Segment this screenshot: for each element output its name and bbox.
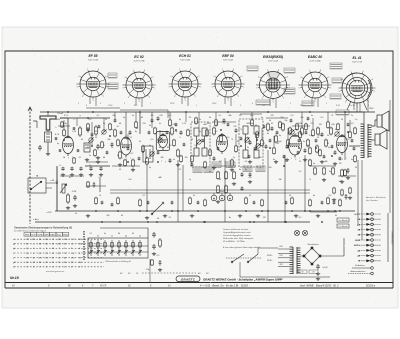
svg-text:5: 5 <box>326 103 327 105</box>
resistor R12 <box>132 159 135 168</box>
antenna coil L1 <box>45 130 52 146</box>
callout note b <box>108 83 118 89</box>
svg-text:0,1: 0,1 <box>169 217 172 219</box>
junction <box>261 210 263 212</box>
tube V3a <box>156 132 169 151</box>
resistor Rz8 <box>354 155 357 163</box>
svg-text:0,1: 0,1 <box>143 195 146 197</box>
capacitor Cy3 <box>253 201 256 205</box>
svg-text:8p: 8p <box>329 171 331 173</box>
wire vertical feed 5 <box>267 150 269 222</box>
junction <box>139 210 141 212</box>
svg-text:1n: 1n <box>111 236 113 238</box>
svg-text:bei 220V Netzanschluß ohne Sig: bei 220V Netzanschluß ohne Signal <box>14 230 46 233</box>
svg-text:7: 7 <box>299 158 300 160</box>
capacitor Cx6 <box>138 157 141 161</box>
title strip part numbers <box>12 285 171 288</box>
resistor Ry2 <box>189 197 192 205</box>
wire B+ top bus <box>40 111 375 113</box>
resistor Rx26 <box>349 131 352 139</box>
measurement dashed line <box>142 272 196 274</box>
svg-text:UKW: UKW <box>56 119 61 121</box>
svg-text:EL41: EL41 <box>57 234 61 236</box>
svg-text:2n: 2n <box>172 159 175 161</box>
svg-text:6,3V 0,2A: 6,3V 0,2A <box>268 59 278 62</box>
capacitor Cy1 <box>147 201 150 205</box>
svg-text:9n: 9n <box>335 129 337 131</box>
svg-text:3n: 3n <box>261 117 263 119</box>
svg-text:3M: 3M <box>307 145 310 147</box>
svg-text:EL 41: EL 41 <box>353 56 362 60</box>
trimmer capacitor CT9 <box>334 131 339 136</box>
ground <box>96 160 100 164</box>
svg-text:Original-Abgleichbesteck nach: Original-Abgleichbesteck nach <box>223 231 252 234</box>
wire TA lead 2 <box>46 187 52 189</box>
resistor Rx12 <box>215 119 218 127</box>
svg-text:4 mm neben grünem Strich abges: 4 mm neben grünem Strich abgeschaltet <box>223 246 260 249</box>
wire <box>338 175 356 177</box>
wire <box>127 134 129 148</box>
GRAETZ logo box <box>176 276 200 282</box>
capacitor Cu1 <box>59 149 62 152</box>
svg-text:1p: 1p <box>189 179 191 181</box>
wire left cluster edge <box>99 178 101 192</box>
wire <box>151 112 153 128</box>
wire B+ rise <box>343 238 345 256</box>
svg-text:0,1: 0,1 <box>117 126 120 128</box>
resistor Rx21 <box>296 123 299 131</box>
resistor Rz0 <box>187 129 190 137</box>
resistor R13 <box>146 157 149 166</box>
junction <box>157 161 159 163</box>
svg-text:Ca 16: Ca 16 <box>349 105 355 107</box>
tone control boxes <box>337 218 349 228</box>
resistor Ry9 <box>117 197 120 205</box>
resistor Rx2 <box>101 141 104 149</box>
svg-text:Antennenbuchse: Antennenbuchse <box>349 270 366 273</box>
capacitor Cy6 <box>333 201 336 205</box>
capacitor Cx21 <box>290 119 293 123</box>
resistor Ru1 <box>61 121 64 128</box>
resistor R11 <box>119 151 122 160</box>
ground <box>316 214 320 218</box>
svg-text:des Gerätes: des Gerätes <box>366 199 379 202</box>
wire vertical feed 2 <box>177 160 179 222</box>
junction <box>347 131 349 133</box>
capacitor C30 <box>61 167 64 171</box>
svg-text:2n: 2n <box>74 213 77 215</box>
capacitor Cz1 <box>297 151 300 155</box>
capacitor C31 <box>70 167 73 171</box>
svg-text:170V: 170V <box>108 105 113 107</box>
capacitor Cy0 <box>101 201 104 205</box>
ground <box>274 160 278 164</box>
capacitor Cz2 <box>307 117 310 121</box>
capacitor C3 <box>86 127 90 133</box>
svg-text:0,4: 0,4 <box>249 176 252 179</box>
svg-text:5n: 5n <box>111 129 113 131</box>
wire heater bus 1 <box>110 189 310 191</box>
tube V2a <box>121 136 132 158</box>
ground PSU <box>316 277 320 281</box>
callout note e <box>284 88 295 94</box>
junction <box>204 221 206 223</box>
resistor R17 <box>231 159 234 168</box>
svg-text:4 — 9.52 · Bearb. Gn · für die: 4 — 9.52 · Bearb. Gn · für die 2 Bl. · 5… <box>200 284 248 287</box>
wire <box>185 112 187 122</box>
junction <box>304 210 306 212</box>
terminal strip bracket <box>387 213 389 262</box>
tube V5 (socket view) <box>256 71 290 101</box>
ground <box>131 168 135 172</box>
resistor Rz3 <box>209 149 212 157</box>
junction <box>240 145 242 147</box>
resistor Rx6 <box>135 121 138 129</box>
ground <box>66 206 70 210</box>
ground <box>152 252 156 256</box>
resistor Ry6 <box>309 199 312 207</box>
svg-text:2M: 2M <box>338 181 342 183</box>
wire PSU drop <box>239 262 241 277</box>
wire <box>235 134 237 146</box>
ground <box>89 173 93 177</box>
junction <box>327 210 329 212</box>
resistor Ry7 <box>327 197 330 205</box>
dial lamps <box>294 230 307 235</box>
ground <box>96 156 100 160</box>
svg-text:ECH8: ECH8 <box>38 234 43 236</box>
junction <box>92 111 94 113</box>
wire to tone boxes <box>310 211 337 213</box>
svg-text:3: 3 <box>124 103 125 105</box>
resistor R14 <box>171 127 174 136</box>
svg-text:0,1: 0,1 <box>130 137 133 139</box>
tube bottom lead lines <box>90 97 96 106</box>
capacitor Ct1 <box>345 194 348 200</box>
resistor R19 <box>275 135 278 144</box>
wire <box>86 185 106 187</box>
output transformer <box>361 124 372 158</box>
svg-text:2,2M: 2,2M <box>71 191 77 193</box>
pin label box 193 <box>193 167 202 173</box>
wire transformer to rectifier <box>301 255 303 257</box>
ground <box>238 214 242 218</box>
resistor Rx4 <box>117 139 120 147</box>
capacitor Cu3 <box>77 149 80 152</box>
svg-text:0,1: 0,1 <box>219 115 222 117</box>
wire <box>86 107 120 109</box>
svg-text:Ausf. W/WE · Stand 4.52/53 · B: Ausf. W/WE · Stand 4.52/53 · Bl. 2 <box>299 284 339 287</box>
IF can 1 windings <box>194 128 207 156</box>
svg-text:5n: 5n <box>247 137 249 139</box>
trimmer capacitor CT8 <box>289 129 294 134</box>
capacitor Cx28 <box>347 123 350 127</box>
wire output anode <box>344 112 346 160</box>
svg-text:Ton Blende: Ton Blende <box>338 226 347 228</box>
wire PSU bottom <box>240 276 330 278</box>
junction <box>203 221 205 223</box>
ground <box>73 204 77 208</box>
svg-text:1M: 1M <box>263 217 266 219</box>
svg-text:1: 1 <box>161 161 162 163</box>
wire transformer tap 5 <box>278 266 290 268</box>
svg-text:1M: 1M <box>287 147 290 149</box>
svg-text:6,3V 0,7A: 6,3V 0,7A <box>352 60 362 63</box>
capacitor Cy4 <box>285 201 288 205</box>
resistor Rt2 <box>349 187 352 194</box>
wire <box>273 136 275 148</box>
tube V1 (socket view) <box>77 70 110 99</box>
capacitor C23 <box>334 151 337 155</box>
junction <box>147 221 149 223</box>
resistor Ry5 <box>291 197 294 205</box>
capacitor Cx29 <box>353 147 356 151</box>
svg-text:4p: 4p <box>135 130 137 133</box>
tube V5 pin numbers <box>256 69 290 103</box>
bridge rectifier <box>303 247 321 265</box>
svg-text:2n: 2n <box>312 163 315 165</box>
wire <box>167 110 169 118</box>
resistor R16 <box>213 127 216 136</box>
small boxed labels right of dashed line <box>298 270 318 273</box>
wire band switch feed <box>100 228 148 238</box>
pin label box 243 <box>243 166 252 172</box>
resistor R30 <box>67 193 70 204</box>
junction <box>67 111 69 113</box>
svg-text:1n: 1n <box>351 115 353 117</box>
resistor R22 <box>301 127 304 136</box>
svg-text:21mA: 21mA <box>56 112 63 115</box>
wire anode to OT top <box>345 111 364 113</box>
resistor Ry8 <box>339 199 342 207</box>
svg-text:0,1: 0,1 <box>79 157 82 159</box>
wire <box>63 120 65 130</box>
svg-text:Trimmer dürfen nur mit dem: Trimmer dürfen nur mit dem <box>223 228 249 231</box>
capacitor Cx20 <box>283 155 286 159</box>
svg-text:Ton Blende: Ton Blende <box>338 220 347 222</box>
resistor Rt0 <box>333 187 336 194</box>
antenna terminal T-plug <box>37 116 56 130</box>
resistor Rz4 <box>299 131 302 139</box>
capacitor C11 <box>129 131 132 135</box>
ground <box>320 160 324 164</box>
wire <box>212 121 236 123</box>
junction <box>224 210 226 212</box>
wire <box>159 130 161 140</box>
capacitor Cx5 <box>127 147 130 151</box>
svg-text:0,1: 0,1 <box>90 233 93 235</box>
ground <box>86 214 90 218</box>
wire <box>349 120 351 132</box>
pin label box 204 <box>204 167 213 173</box>
resistor Ry4 <box>261 199 264 207</box>
svg-text:0,1µF: 0,1µF <box>322 267 328 269</box>
wire B+ distribution bus <box>55 210 355 212</box>
wire vertical feed 8 <box>56 166 58 211</box>
svg-text:7n: 7n <box>59 165 61 167</box>
resistor R42 <box>233 171 236 180</box>
capacitor C18 <box>265 145 268 149</box>
resistor Rx29 <box>63 129 66 137</box>
junction <box>291 210 293 212</box>
capacitor Cx4 <box>120 131 123 135</box>
svg-text:Nr.10: Nr.10 <box>10 276 19 280</box>
phono input box <box>28 178 46 193</box>
svg-text:1n: 1n <box>199 119 201 121</box>
junction <box>253 221 255 223</box>
svg-text:5p: 5p <box>57 143 59 145</box>
speaker 1 <box>377 111 389 131</box>
resistor R21 <box>289 127 292 136</box>
wire vertical feed 4 <box>224 158 226 222</box>
junction <box>227 111 229 113</box>
band switch horizontal rows <box>88 245 148 247</box>
svg-text:9: 9 <box>126 159 127 161</box>
svg-text:5n: 5n <box>193 195 195 197</box>
capacitor Cf242 <box>241 173 244 177</box>
pin label box 256 <box>256 166 265 172</box>
svg-text:2p: 2p <box>131 115 134 117</box>
capacitor C20 <box>286 145 289 149</box>
svg-text:9: 9 <box>342 159 343 161</box>
wire <box>114 112 116 120</box>
resistor Rt1 <box>341 189 344 196</box>
svg-text:EC 92: EC 92 <box>134 55 144 59</box>
svg-text:8p: 8p <box>179 119 181 121</box>
capacitor C15 <box>213 157 216 161</box>
tube V1 pin numbers <box>77 69 111 102</box>
electrolytic C50 <box>211 193 217 201</box>
terminal T10 <box>359 260 381 263</box>
svg-text:6p: 6p <box>279 135 281 137</box>
wire <box>120 109 168 111</box>
svg-text:1: 1 <box>196 105 197 107</box>
resistor Rz7 <box>354 127 357 135</box>
resistor R41 <box>225 171 228 180</box>
junction <box>63 139 65 141</box>
tube V6a <box>289 134 302 158</box>
terminal T3 arrowhead <box>366 223 370 226</box>
svg-text:EBF8: EBF8 <box>44 234 48 236</box>
band switch wafer 7 <box>131 240 135 256</box>
callout note f <box>330 63 342 69</box>
capacitor Cf242 <box>241 187 244 191</box>
resistor Rx23 <box>319 149 322 157</box>
service note paragraph <box>222 228 260 249</box>
band switch wafer 5 <box>117 240 121 256</box>
svg-text:9: 9 <box>240 105 241 107</box>
svg-text:9p: 9p <box>103 123 105 125</box>
capacitor C1 <box>38 145 42 151</box>
svg-text:7: 7 <box>346 158 347 160</box>
svg-text:a: a <box>73 119 74 121</box>
capacitor Cx27 <box>339 157 342 161</box>
tube V7 (socket view) <box>339 72 376 105</box>
junction <box>139 111 141 113</box>
wire <box>76 118 78 126</box>
resistor Rx14 <box>235 145 238 153</box>
terminal T5 arrowhead <box>366 233 370 236</box>
svg-text:44: 44 <box>103 156 105 159</box>
svg-text:ZF = 460kHz · 10,7MHz: ZF = 460kHz · 10,7MHz <box>222 240 245 243</box>
junction <box>101 221 103 223</box>
svg-text:2V·: 2V· <box>205 273 210 275</box>
band switch wafer 3 <box>103 240 107 256</box>
wire <box>287 128 289 140</box>
svg-text:4: 4 <box>252 103 253 105</box>
ground <box>216 200 220 204</box>
svg-text:7: 7 <box>169 161 170 163</box>
capacitor Cx17 <box>263 125 266 129</box>
svg-text:EBF 80: EBF 80 <box>222 54 234 58</box>
svg-text:1n: 1n <box>233 157 235 159</box>
wire vertical feed 1 <box>146 165 148 211</box>
svg-text:1M: 1M <box>239 115 242 117</box>
resistor R53 <box>341 169 344 177</box>
speaker 2 <box>375 130 387 149</box>
terminal T3 <box>359 223 381 226</box>
svg-text:45 CF: 45 CF <box>100 285 107 288</box>
callout note g <box>330 94 341 99</box>
trimmer capacitor CT5 <box>196 139 201 144</box>
resistor R51 <box>323 167 326 175</box>
wire heater bus 2 <box>110 192 310 194</box>
resistor R20 <box>282 123 285 132</box>
wire chassis bus <box>35 221 310 223</box>
svg-text:210V: 210V <box>212 103 217 105</box>
wire <box>198 112 200 128</box>
oscillator coil box (solid) <box>143 146 153 162</box>
tube V7a <box>337 134 348 155</box>
wire vertical feed 3 <box>182 165 184 211</box>
resistor Rx17 <box>261 139 264 147</box>
svg-text:6n: 6n <box>239 169 241 171</box>
pin label box 212 <box>212 162 221 168</box>
resistor R40 <box>217 171 220 180</box>
capacitor C60 <box>152 232 156 238</box>
wire OT to speaker 2 <box>371 139 375 141</box>
capacitor Cx18 <box>269 139 272 143</box>
resistor Ry1 <box>139 199 142 207</box>
svg-text:6n: 6n <box>117 155 119 157</box>
wire antenna bus <box>60 117 110 119</box>
capacitor Cx2 <box>106 151 109 155</box>
junction <box>269 147 271 149</box>
wire right run 0 <box>367 96 369 112</box>
wire <box>261 128 263 140</box>
photo grain speckle <box>8 34 385 299</box>
svg-text:Gemessene Gleichspannungen in: Gemessene Gleichspannungen in Ruhestellu… <box>14 227 72 230</box>
svg-text:8: 8 <box>86 105 87 107</box>
svg-text:EF85: EF85 <box>25 234 29 236</box>
resistor Rx7 <box>142 145 145 153</box>
resistor Rz5 <box>305 123 308 131</box>
capacitor Cy2 <box>197 201 200 205</box>
mains transformer <box>290 247 301 274</box>
capacitor C24 <box>157 117 160 121</box>
resistor Rz10 <box>195 117 198 125</box>
capacitor Cx3 <box>114 119 117 123</box>
wire <box>327 112 329 122</box>
resistor Rz9 <box>204 161 207 169</box>
resistor R43 <box>217 185 220 194</box>
svg-text:2p: 2p <box>148 167 151 169</box>
capacitor Cx16 <box>254 147 257 151</box>
junction <box>171 210 173 212</box>
svg-text:9: 9 <box>295 159 296 161</box>
svg-text:1: 1 <box>338 158 339 160</box>
svg-text:3n: 3n <box>351 159 353 161</box>
